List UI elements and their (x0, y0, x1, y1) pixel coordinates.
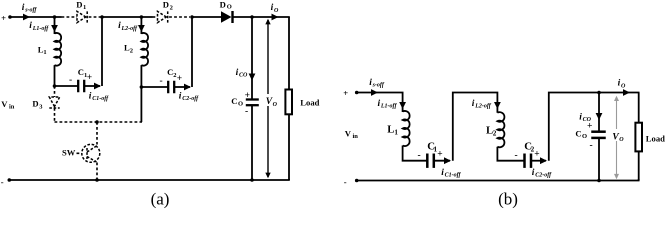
svg-text:C1-off: C1-off (92, 96, 109, 102)
node L2 bottom (a) (140, 85, 144, 89)
svg-text:D: D (220, 0, 226, 9)
svg-text:Load: Load (646, 134, 665, 144)
svg-text:L2-off: L2-off (474, 104, 492, 110)
current arrow i_L1-off (b) (399, 102, 406, 109)
svg-text:+: + (343, 88, 348, 98)
wire up and over to L2 (b) (453, 93, 498, 161)
svg-text:O: O (274, 8, 279, 14)
wire L2 to C2 (b) (497, 147, 524, 161)
node Co top (b) (597, 91, 601, 95)
inductor L2 (b) (497, 112, 504, 147)
svg-text:-: - (160, 77, 163, 87)
dashed wire D3 to L2 bottom (55, 121, 143, 123)
svg-text:-: - (344, 177, 347, 187)
svg-text:-: - (69, 76, 72, 86)
svg-text:SW: SW (62, 147, 76, 157)
branch D3 (dashed, off) (54, 86, 56, 97)
inductor L1 (b) (403, 111, 410, 146)
node Co bottom (b) (597, 179, 601, 183)
capacitor C1 (77, 80, 79, 93)
node Co top (a) (250, 15, 254, 19)
inductor L2 (141, 33, 148, 66)
node junction L1 top (a) (53, 15, 57, 19)
wire up to top node after D2 (a) (191, 17, 193, 87)
branch Co (b) (598, 93, 600, 132)
branch Co (a) (251, 17, 253, 100)
inductor L1 (55, 33, 62, 66)
current arrow i_L2-off (b) (494, 102, 501, 109)
wire L1 to C1 corner (55, 65, 79, 86)
voltage arrow V_O (b) gray (616, 97, 618, 178)
wire L1 to C1 (b) (403, 146, 428, 161)
node L1 bottom (a) (53, 84, 57, 88)
wire up to top node (a) (101, 17, 103, 86)
svg-text:O: O (238, 101, 243, 108)
svg-text:-: - (1, 177, 4, 187)
current arrow i_O (a) (272, 14, 279, 21)
svg-text:L: L (387, 124, 394, 136)
diode D2 (dashed, off) (153, 16, 158, 18)
svg-text:1: 1 (394, 129, 398, 137)
svg-text:+: + (1, 13, 6, 23)
svg-text:O: O (619, 137, 624, 143)
wire up and over to output (b) (549, 93, 640, 161)
voltage arrow V_O (a) (267, 20, 269, 177)
svg-text:C2-off: C2-off (535, 173, 552, 179)
capacitor C2 (167, 81, 169, 94)
svg-text:s-off: s-off (372, 83, 385, 89)
svg-text:O: O (227, 4, 232, 11)
wire L2 bottom down to dashed net (140, 87, 142, 122)
svg-text:Load: Load (300, 97, 319, 107)
svg-text:s-off: s-off (24, 8, 37, 14)
svg-text:(b): (b) (498, 190, 518, 209)
svg-text:-: - (590, 141, 593, 151)
node SW junction (dashed net) (95, 120, 99, 124)
svg-text:1: 1 (83, 4, 86, 11)
diode D1 (dashed, off) (62, 16, 78, 18)
branch L1 (a): wire with current arrow (54, 17, 56, 34)
branch L2 (a): wire with current arrow (140, 17, 142, 34)
svg-text:1: 1 (43, 49, 46, 56)
svg-text:L2-off: L2-off (121, 26, 139, 32)
node after D2 (a) (190, 15, 194, 19)
load resistor box (b) (635, 123, 642, 152)
svg-text:C: C (231, 96, 237, 106)
wire to Do (a) (192, 16, 222, 18)
svg-text:O: O (582, 133, 587, 140)
svg-text:+: + (87, 73, 92, 83)
wire L2 to C2 corner (141, 65, 168, 87)
node SW bottom (a) (95, 178, 99, 182)
wire top mid (a) (102, 16, 153, 18)
svg-text:2: 2 (493, 130, 497, 138)
wire C2 to node, current arrow i_C2-off (174, 86, 190, 88)
wire top right (a) (232, 16, 290, 18)
wire C2 right with current arrow i_C2-off (b) (531, 160, 546, 162)
wire C1 right with current arrow i_C1-off (b) (434, 160, 450, 162)
svg-text:2: 2 (170, 4, 173, 11)
diode Do (output diode) (221, 11, 232, 22)
svg-text:+: + (534, 150, 539, 160)
svg-text:in: in (9, 104, 15, 111)
svg-text:+: + (245, 91, 250, 101)
capacitor C1 (b) (426, 154, 429, 168)
node Co bottom (a) (250, 178, 254, 182)
capacitor Co (b) (591, 130, 606, 133)
switch SW (dashed, off) (96, 122, 98, 145)
current arrow i_s-off (b) (371, 89, 378, 96)
load branch (a) (288, 17, 290, 90)
wire top left (b) (357, 93, 403, 113)
node after D1 (a) (100, 15, 104, 19)
svg-text:+: + (587, 122, 592, 132)
current arrow i_O (b) (623, 89, 630, 96)
load branch (b) (638, 93, 640, 123)
svg-text:+: + (437, 150, 442, 160)
wire top left (a) (10, 16, 62, 18)
svg-text:V: V (345, 129, 352, 139)
svg-text:C: C (575, 128, 581, 138)
svg-text:-: - (515, 151, 518, 161)
svg-text:in: in (353, 133, 359, 140)
svg-text:+: + (177, 74, 182, 84)
capacitor C2 (b) (523, 154, 526, 168)
node junction L2 top (a) (140, 15, 144, 19)
current arrow i_s-off (a) (23, 14, 30, 21)
svg-text:CO: CO (239, 73, 248, 79)
svg-text:L1-off: L1-off (32, 26, 50, 32)
svg-text:-: - (245, 107, 248, 117)
svg-text:-: - (418, 151, 421, 161)
svg-text:D: D (163, 0, 169, 10)
svg-text:O: O (273, 102, 278, 108)
svg-text:C1-off: C1-off (445, 173, 462, 179)
svg-text:D: D (32, 99, 38, 109)
svg-text:2: 2 (130, 48, 133, 55)
svg-text:V: V (1, 99, 8, 109)
svg-text:O: O (621, 83, 626, 89)
svg-text:(a): (a) (151, 190, 170, 209)
svg-text:D: D (76, 0, 82, 9)
wire C1 to node, current arrow i_C1-off (84, 85, 100, 87)
load resistor box (a) (285, 90, 292, 115)
capacitor Co (a) (246, 98, 259, 100)
svg-text:L1-off: L1-off (380, 104, 398, 110)
svg-text:C2-off: C2-off (182, 96, 199, 102)
